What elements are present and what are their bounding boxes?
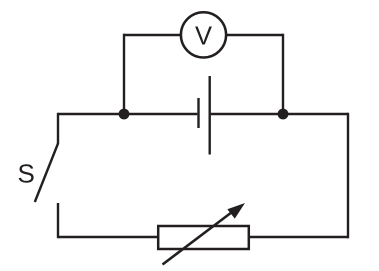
wire: voltmeter branch vertical left (123, 34, 125, 114)
wire top-right: voltmeter branch horizontal right (226, 34, 283, 36)
switch bottom contact lead (57, 203, 59, 238)
wire top-left: voltmeter branch horizontal left (124, 34, 181, 36)
wire: bottom horizontal left (58, 236, 158, 238)
battery cell short plate (negative) (197, 98, 199, 128)
variable resistor arrow shaft (163, 208, 239, 265)
voltmeter U1 circle (181, 12, 226, 57)
battery cell long plate (positive) (208, 76, 210, 155)
switch S blade (open) (35, 144, 58, 203)
svg-text:S: S (18, 158, 35, 188)
wire: switch top lead vertical (57, 113, 59, 144)
wire: voltmeter branch vertical right (282, 34, 284, 114)
wire: middle horizontal left (dot to battery) (58, 113, 197, 115)
wire: bottom horizontal right (249, 236, 348, 238)
variable resistor R1 body (158, 226, 249, 249)
svg-text:V: V (195, 23, 212, 51)
junction dot left node (119, 109, 130, 120)
variable resistor arrowhead (227, 203, 245, 219)
wire: middle horizontal right (battery to right corner) (211, 113, 348, 115)
junction dot right node (278, 109, 289, 120)
wire: right vertical (347, 113, 349, 238)
